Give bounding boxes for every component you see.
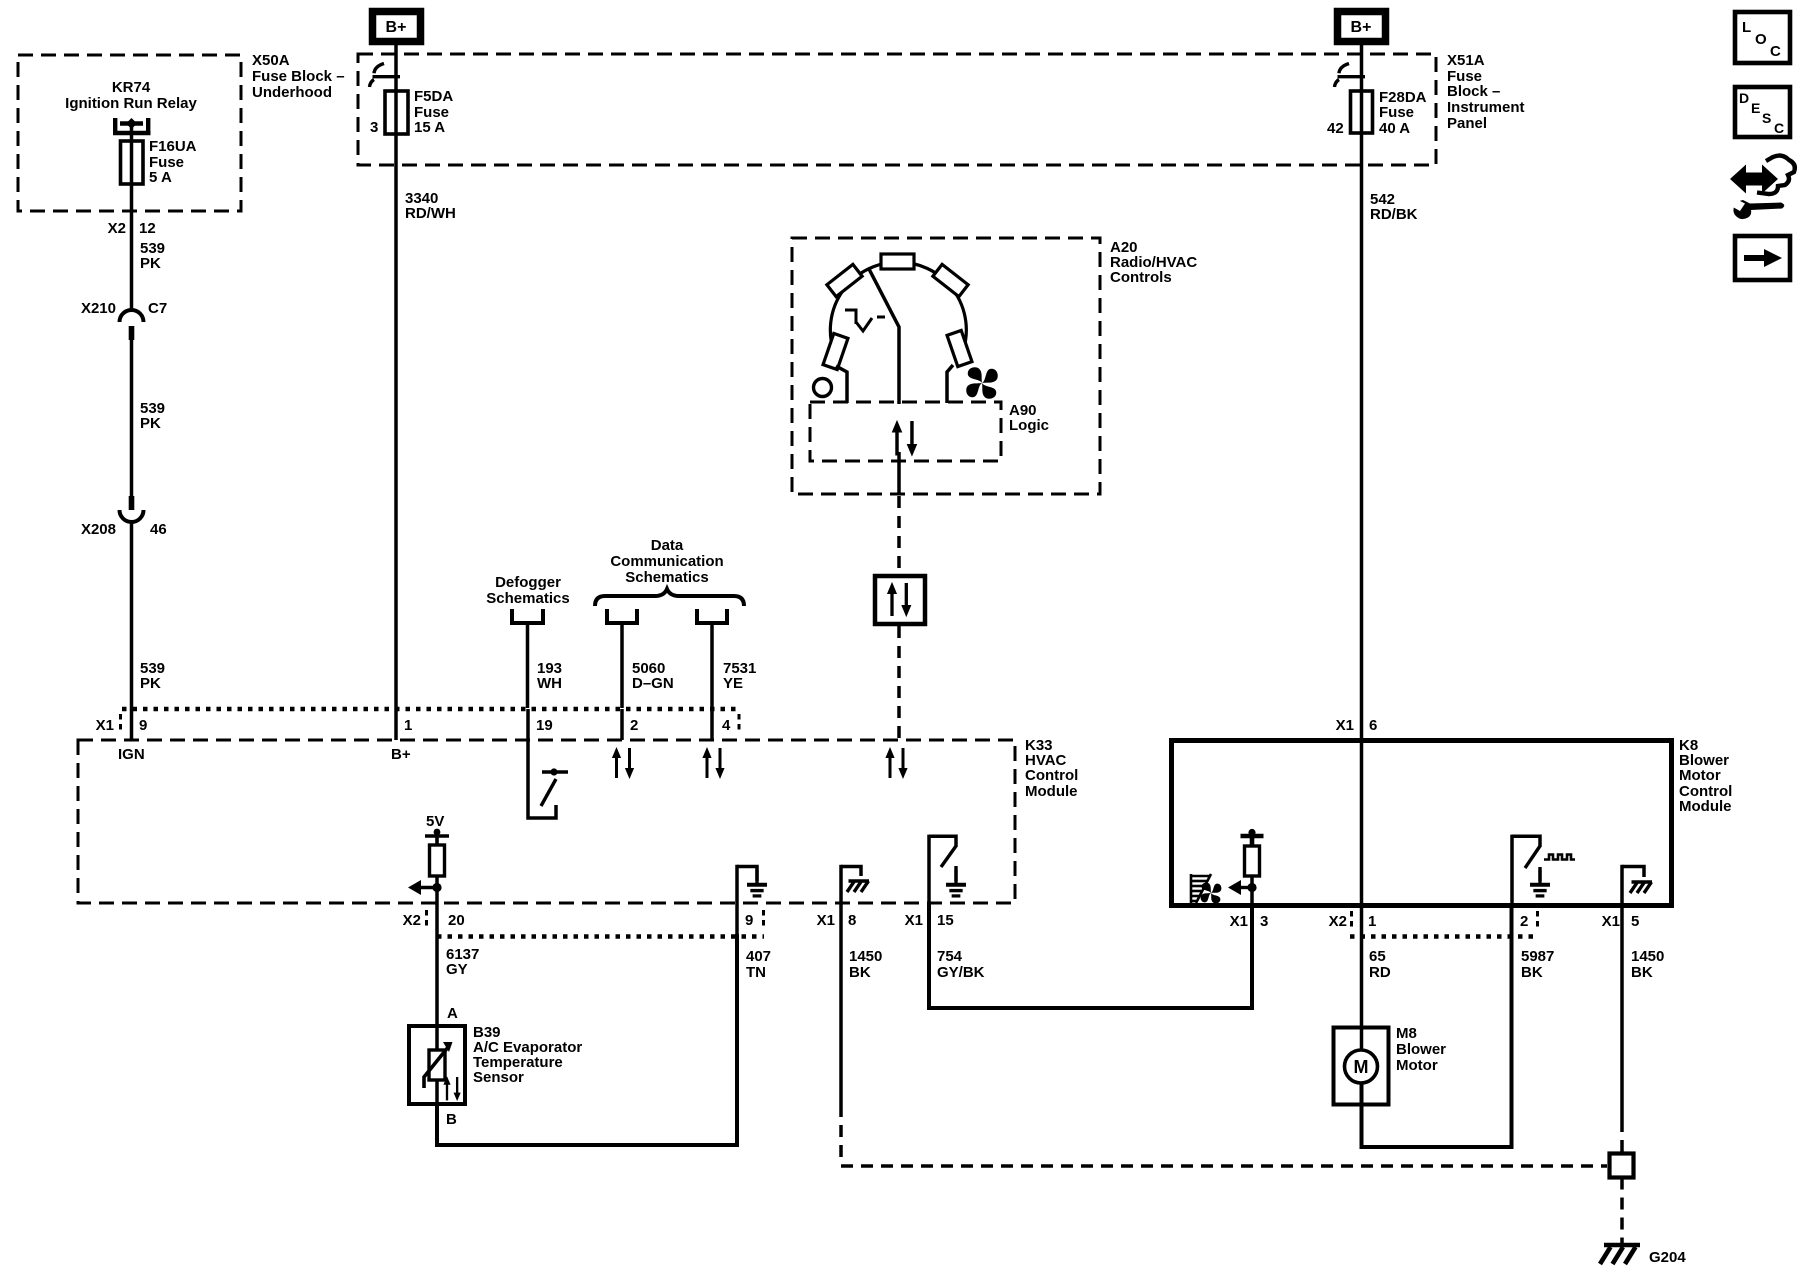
svg-text:X1: X1 [96, 717, 114, 734]
svg-text:X1: X1 [1336, 717, 1354, 734]
svg-text:L: L [1742, 19, 1751, 36]
motor M8 box [1334, 1028, 1389, 1105]
svg-text:Block –: Block – [1447, 83, 1500, 100]
connector X210 C7 [81, 300, 167, 340]
wire 1450 BK below K33 (solid part) [839, 903, 843, 1105]
svg-text:Module: Module [1025, 783, 1078, 800]
dashed ground run to G204 junction [841, 1164, 1607, 1168]
svg-text:BK: BK [849, 964, 871, 981]
K33 serial data arrows (pin 4) [710, 709, 714, 740]
K8 internal driver (pin 3): top bar with dot [1241, 836, 1264, 846]
svg-text:6: 6 [1369, 717, 1377, 734]
A20 radio/HVAC controls dashed box [792, 238, 1100, 494]
K8 X2 connector dotted row [1350, 934, 1538, 939]
K8 fan glyph [1201, 883, 1222, 904]
svg-text:Fuse: Fuse [1379, 104, 1414, 121]
svg-text:40 A: 40 A [1379, 120, 1410, 137]
fuse F28DA [1351, 91, 1373, 133]
svg-text:D: D [1739, 90, 1749, 106]
A20 off position branch [836, 366, 847, 403]
svg-text:X210: X210 [81, 300, 116, 317]
svg-text:5 A: 5 A [149, 169, 172, 186]
svg-text:754: 754 [937, 948, 963, 965]
fuse F5DA [385, 91, 408, 134]
svg-text:BK: BK [1631, 964, 1653, 981]
wire 407 TN inside K33 [735, 865, 739, 934]
relay KR74 contact symbol [113, 118, 151, 141]
svg-text:X2: X2 [108, 220, 126, 237]
svg-text:F16UA: F16UA [149, 138, 197, 155]
svg-text:D–GN: D–GN [632, 675, 674, 692]
wire 1450 BK inside K33 [839, 865, 843, 903]
svg-text:1: 1 [404, 717, 412, 734]
svg-text:S: S [1762, 110, 1771, 126]
serial data box arrows [887, 582, 911, 617]
svg-text:RD: RD [1369, 964, 1391, 981]
svg-text:X2: X2 [1329, 913, 1347, 930]
svg-text:9: 9 [139, 717, 147, 734]
svg-text:C: C [1774, 120, 1784, 136]
wire resistor to pin 3 [1250, 876, 1254, 908]
svg-text:8: 8 [848, 912, 856, 929]
svg-text:IGN: IGN [118, 746, 145, 763]
splice junction square [1610, 1154, 1634, 1178]
A20 off-detent glyph [845, 310, 885, 331]
svg-text:C7: C7 [148, 300, 167, 317]
dashed wire A90 to serial data box [897, 496, 901, 574]
K33 X2 connector dotted row [437, 934, 764, 939]
svg-text:G204: G204 [1649, 1249, 1686, 1266]
K8 X2 connector end ticks [1350, 911, 1353, 931]
K33 ground symbol (pin 9 / 407 TN) [737, 867, 767, 896]
K8 control arrow (points left) [1240, 886, 1252, 889]
svg-text:Defogger: Defogger [495, 574, 561, 591]
K33 chassis ground (pin 8 / 1450 BK) [841, 867, 869, 893]
svg-text:X1: X1 [1602, 913, 1620, 930]
K33 X1 connector dotted row [122, 707, 740, 712]
svg-text:Underhood: Underhood [252, 84, 332, 101]
svg-text:1450: 1450 [1631, 948, 1664, 965]
svg-text:X1: X1 [905, 912, 923, 929]
svg-text:TN: TN [746, 964, 766, 981]
wire 539 PK from X208 to K33 pin 9 [130, 522, 134, 740]
svg-text:Panel: Panel [1447, 115, 1487, 132]
K8 PWM switch (pin 2) [1512, 836, 1550, 896]
svg-text:Logic: Logic [1009, 417, 1049, 434]
wire 754 GY/BK run to K8 pin 3 [929, 903, 1252, 1008]
wire 754 GY/BK inside K33 [927, 835, 931, 903]
wire 193 WH [526, 625, 530, 708]
LOC reference box [1735, 12, 1790, 63]
svg-text:Motor: Motor [1396, 1057, 1438, 1074]
K33 defogger switch (pin 19) [528, 709, 568, 818]
svg-text:WH: WH [537, 675, 562, 692]
svg-text:B: B [446, 1111, 457, 1128]
svg-text:Sensor: Sensor [473, 1069, 524, 1086]
svg-text:X1: X1 [817, 912, 835, 929]
B+ power symbol (right) [1338, 12, 1386, 42]
B+ power symbol (left) [373, 12, 421, 42]
svg-text:42: 42 [1327, 120, 1344, 137]
junction dot on pin 3 wire [1247, 883, 1256, 892]
defogger schematics off-page stub [512, 609, 543, 623]
wire 65 RD from K8 pin 1 to M8 [1360, 741, 1364, 1050]
wire from B+ (left) through fuse block [394, 45, 398, 740]
data communication brace [595, 589, 744, 606]
svg-text:X51A: X51A [1447, 52, 1485, 69]
svg-text:C: C [1770, 43, 1781, 60]
svg-text:B+: B+ [1351, 19, 1372, 36]
K33 switch to ground (pin 15 / 754 GY/BK) [929, 836, 966, 896]
svg-text:RD/WH: RD/WH [405, 205, 456, 222]
A90 logic dashed box [810, 402, 1001, 461]
wire resistor to pin 20 junction [435, 876, 439, 934]
svg-text:1: 1 [1368, 913, 1376, 930]
K33 pull-up resistor [430, 845, 445, 876]
wire B39 return to pin 9 (407 TN) [437, 934, 737, 1145]
svg-text:20: 20 [448, 912, 465, 929]
fuse block X51A dashed box [358, 54, 1436, 165]
svg-text:B+: B+ [391, 746, 411, 763]
dashed wire 1450 BK to G204 junction [1620, 908, 1624, 1120]
K33 serial data arrows (pin 2) [620, 709, 624, 740]
svg-text:GY: GY [446, 961, 468, 978]
svg-text:Module: Module [1679, 798, 1732, 815]
A90 internal up/down arrows [892, 420, 918, 457]
svg-text:PK: PK [140, 255, 161, 272]
dashed wire junction to G204 [1620, 1178, 1624, 1246]
motor M8 circle with M [1345, 1050, 1378, 1083]
svg-text:15 A: 15 A [414, 119, 445, 136]
svg-text:Control: Control [1025, 767, 1078, 784]
svg-text:407: 407 [746, 948, 771, 965]
svg-text:15: 15 [937, 912, 954, 929]
dashed wire serial data box to K33 [897, 626, 901, 740]
svg-text:X208: X208 [81, 521, 116, 538]
svg-text:2: 2 [630, 717, 638, 734]
fuse tap hook (right) [1335, 64, 1366, 88]
svg-text:5: 5 [1631, 913, 1639, 930]
swap/tools icon [1731, 156, 1795, 220]
svg-text:Instrument: Instrument [1447, 99, 1525, 116]
wire pin 5 inside K8 [1620, 865, 1624, 908]
svg-text:9: 9 [745, 912, 753, 929]
svg-text:Motor: Motor [1679, 767, 1721, 784]
svg-text:PK: PK [140, 675, 161, 692]
fuse block X50A dashed box [18, 55, 241, 211]
svg-text:BK: BK [1521, 964, 1543, 981]
data schematics off-page stub (pin 4) [697, 609, 727, 623]
K8 blower motor control module box [1172, 741, 1672, 906]
junction dot at resistor/signal [432, 883, 441, 892]
svg-text:4: 4 [722, 717, 731, 734]
svg-text:3: 3 [1260, 913, 1268, 930]
wire 7531 YE [710, 625, 714, 708]
svg-text:Communication: Communication [610, 553, 723, 570]
svg-text:5V: 5V [426, 813, 444, 830]
svg-text:12: 12 [139, 220, 156, 237]
wire from B+ (right) to K8 module [1360, 45, 1364, 741]
svg-text:RD/BK: RD/BK [1370, 206, 1418, 223]
svg-text:A: A [447, 1005, 458, 1022]
svg-text:Schematics: Schematics [625, 569, 708, 586]
serial data arrow box [875, 576, 925, 624]
wire pin 2 inside K8 [1510, 835, 1514, 908]
A20 switch wiper [869, 269, 899, 404]
data schematics off-page stub (pin 2) [607, 609, 637, 623]
svg-text:1450: 1450 [849, 948, 882, 965]
wire 539 PK between X210 and X208 [130, 340, 134, 497]
fuse tap hook (left) [370, 64, 401, 88]
svg-text:Blower: Blower [1396, 1041, 1446, 1058]
svg-text:2: 2 [1520, 913, 1528, 930]
A20 fan position branch [947, 365, 953, 403]
svg-text:X1: X1 [1230, 913, 1248, 930]
A20 rotary switch detent rects [823, 254, 972, 370]
wire from A90 logic to A20 edge [897, 452, 901, 494]
svg-text:KR74: KR74 [112, 79, 151, 96]
svg-text:F5DA: F5DA [414, 88, 453, 105]
svg-text:X50A: X50A [252, 52, 290, 69]
wire 6137 GY to B39 [435, 934, 439, 1026]
K8 driver resistor [1245, 846, 1260, 876]
fuse F16UA [121, 141, 144, 184]
wire 5060 D-GN [620, 625, 624, 708]
A20 off circle [814, 379, 832, 397]
svg-text:Schematics: Schematics [486, 590, 569, 607]
svg-text:O: O [1755, 31, 1767, 48]
sensor B39 A/C evaporator temperature sensor [409, 1026, 465, 1104]
svg-text:Data: Data [651, 537, 684, 554]
connector X208 pin 46 [81, 496, 167, 538]
svg-text:65: 65 [1369, 948, 1386, 965]
svg-text:5987: 5987 [1521, 948, 1554, 965]
DESC reference box [1735, 87, 1790, 137]
A20 rotary switch arc [830, 262, 966, 352]
K33 HVAC control module dashed box [78, 740, 1015, 903]
wire 539 PK from fuse F16UA to connector X210 [130, 184, 134, 310]
svg-text:YE: YE [723, 675, 743, 692]
A20 fan glyph [966, 367, 998, 399]
svg-text:X2: X2 [403, 912, 421, 929]
svg-text:B+: B+ [386, 19, 407, 36]
svg-text:E: E [1751, 100, 1760, 116]
K33 serial data arrows (A90 wire) [885, 747, 907, 779]
svg-text:M8: M8 [1396, 1025, 1417, 1042]
svg-text:3: 3 [370, 119, 378, 136]
ground G204 [1600, 1245, 1640, 1264]
svg-text:Ignition Run Relay: Ignition Run Relay [65, 95, 197, 112]
wire M8 return to K8 pin 2 (5987 BK) [1362, 908, 1512, 1147]
K8 chassis ground (pin 5) [1622, 867, 1652, 894]
svg-text:M: M [1354, 1057, 1369, 1077]
K8 PWM squarewave glyph [1544, 855, 1575, 860]
K8 speed ramp glyph [1191, 874, 1211, 903]
svg-text:46: 46 [150, 521, 167, 538]
K33 X2 connector end ticks [425, 910, 428, 930]
dashed wire 1450 BK to ground run [839, 1105, 843, 1165]
K33 5V supply bar [425, 836, 449, 845]
svg-text:GY/BK: GY/BK [937, 964, 985, 981]
svg-text:19: 19 [536, 717, 553, 734]
forward reference arrow box [1735, 236, 1790, 280]
svg-text:Fuse Block –: Fuse Block – [252, 68, 345, 85]
K33 X1 connector end ticks [119, 714, 122, 734]
svg-text:Controls: Controls [1110, 269, 1172, 286]
svg-text:PK: PK [140, 415, 161, 432]
K33 signal arrow (points left) [420, 886, 437, 889]
